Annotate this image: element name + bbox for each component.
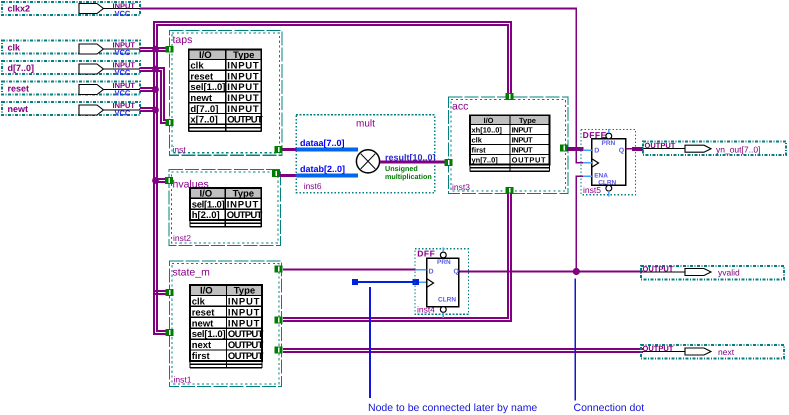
svg-text:yn_out[7..0]: yn_out[7..0] [716,144,760,154]
input pin reset [2,81,140,97]
svg-text:D: D [594,147,599,154]
svg-text:clk: clk [8,43,22,53]
taps I/O table [189,50,263,132]
svg-text:D: D [429,269,434,276]
svg-text:INPUT: INPUT [512,145,533,154]
annotation callout line node [369,287,371,398]
taps connector x out (right) [275,146,283,153]
bus acc yn to DFFE D [567,147,584,151]
svg-text:I/O: I/O [484,116,494,125]
output pin next [641,344,784,359]
svg-text:d[7..0]: d[7..0] [190,104,218,115]
svg-text:OUTPUT: OUTPUT [228,329,264,340]
junction dot d [152,66,159,73]
mult dataa bus stub [297,148,358,152]
svg-text:ENA: ENA [594,172,608,179]
svg-text:clk: clk [190,61,204,72]
svg-text:INPUT: INPUT [228,307,260,318]
svg-text:PRN: PRN [602,140,616,147]
conduit next from state_m to output pin [283,348,643,350]
svg-text:INPUT: INPUT [228,318,260,329]
conduit trunk from input pins to acc top [154,22,511,334]
wire clk conduit stub [140,47,170,49]
wire newt conduit stub [140,107,158,109]
svg-text:I/O: I/O [200,286,213,297]
state_m connector newt (left) [166,329,174,336]
svg-text:reset: reset [190,71,214,82]
svg-text:I/O: I/O [199,50,212,61]
svg-text:VCC: VCC [115,89,131,98]
wire state_m to DFF D [283,269,416,271]
svg-text:OUTPUT: OUTPUT [643,344,674,353]
svg-text:yvalid: yvalid [718,268,740,278]
svg-text:d[7..0]: d[7..0] [8,63,35,73]
svg-text:OUTPUT: OUTPUT [227,210,263,221]
annotation callout line connection dot [574,279,576,401]
input pin clk [2,41,140,58]
block taps [170,31,283,156]
connection dot at yvalid [573,268,580,275]
svg-text:Type: Type [519,116,536,125]
svg-text:h[2..0]: h[2..0] [192,210,220,221]
svg-text:OUTPUT: OUTPUT [228,351,264,362]
svg-text:INPUT: INPUT [512,125,533,134]
junction dot hvalues sel [152,177,159,184]
svg-text:xh[10..0]: xh[10..0] [472,125,503,134]
svg-text:reset: reset [192,307,216,318]
svg-text:state_m: state_m [173,267,211,279]
wire d[7..0] conduit to taps [140,68,170,120]
svg-text:DFF: DFF [417,249,435,259]
svg-text:VCC: VCC [115,109,131,118]
svg-text:clkx2: clkx2 [8,4,31,14]
svg-text:OUTPUT: OUTPUT [512,155,546,164]
svg-text:VCC: VCC [115,9,131,18]
svg-text:I/O: I/O [200,188,213,199]
junction dot clk [152,46,159,53]
bus DFFE Q to yn_out pin [626,148,634,150]
flip-flop DFF inst4 [415,248,468,318]
state_m connector to DFF (right) [275,266,283,273]
svg-text:INPUT: INPUT [227,82,259,93]
svg-text:OUTPUT: OUTPUT [645,141,676,150]
svg-text:Type: Type [233,50,254,61]
svg-text:multiplication: multiplication [385,172,432,181]
svg-text:Node to be connected later by: Node to be connected later by name [368,402,537,414]
svg-text:newt: newt [8,104,29,114]
input pin newt [2,101,140,117]
svg-text:reset: reset [8,84,30,94]
svg-text:INPUT: INPUT [228,297,260,308]
svg-text:PRN: PRN [437,259,451,266]
block mult [296,115,435,193]
svg-text:newt: newt [190,93,212,104]
acc connector yn out (right) [560,145,568,152]
node wire to be connected by name [352,279,427,285]
junction dot reset [152,86,159,93]
state_m connector first (right) [275,317,283,324]
state_m I/O table [190,285,264,368]
svg-text:newt: newt [192,318,214,329]
svg-text:dataa[7..0]: dataa[7..0] [300,138,345,148]
svg-text:inst3: inst3 [452,182,470,192]
input pin clkx2 [2,2,140,18]
svg-text:clk: clk [192,297,206,308]
svg-text:inst2: inst2 [173,233,191,243]
block acc [449,97,569,194]
svg-text:VCC: VCC [115,68,131,77]
svg-text:INPUT: INPUT [512,135,533,144]
svg-text:INPUT: INPUT [227,93,259,104]
acc connector first (bottom) [506,187,514,194]
taps connector d (left) [166,119,174,126]
svg-text:Connection dot: Connection dot [574,402,645,414]
svg-text:inst6: inst6 [304,181,322,191]
svg-text:clk: clk [472,135,483,144]
svg-text:next: next [718,347,735,357]
svg-text:Q: Q [454,269,460,276]
state_m connector clk (left) [166,289,174,296]
input pin d[7..0] [2,61,140,77]
acc connector xh (left) [445,159,453,166]
svg-text:OUTPUT: OUTPUT [227,115,263,126]
svg-text:sel[1..0]: sel[1..0] [192,199,225,210]
acc connector clk (top) [506,93,514,100]
state_m connector next (right) [275,347,283,354]
wire conduit branch to state_m clk [153,290,170,292]
acc I/O table [470,115,550,171]
svg-text:Q: Q [619,147,625,154]
block hvalues [169,170,281,246]
svg-text:CLRN: CLRN [438,297,456,304]
hvalues connector sel (left) [165,177,173,184]
junction dot newt [152,107,159,114]
svg-text:sel[1..0]: sel[1..0] [190,82,225,93]
svg-text:mult: mult [356,119,375,130]
hvalues I/O table [190,188,262,227]
bus mult result to acc [380,160,446,163]
flip-flop DFFE inst5 [581,129,636,196]
svg-text:OUTPUT: OUTPUT [643,265,674,274]
taps connector clk (left) [166,46,174,53]
svg-text:Type: Type [234,286,255,297]
hvalues connector h out (top right) [272,170,280,177]
svg-text:OUTPUT: OUTPUT [228,340,264,351]
wire conduit branch to hvalues [153,178,170,180]
svg-text:yn[7..0]: yn[7..0] [472,155,499,164]
block state_m [170,261,282,387]
svg-text:x[7..0]: x[7..0] [190,115,217,126]
svg-text:INPUT: INPUT [227,71,259,82]
svg-text:first: first [192,351,211,362]
bus taps x[7..0] to mult dataa [283,148,298,151]
bus hvalues h[2..0] to mult datab [280,174,298,177]
wire DFF Q to yvalid [459,271,643,273]
svg-text:Type: Type [233,188,254,199]
svg-text:VCC: VCC [115,48,131,57]
svg-text:INPUT: INPUT [227,104,259,115]
svg-text:sel[1..0]: sel[1..0] [192,329,226,340]
output pin yvalid [641,265,784,280]
svg-text:acc: acc [452,101,468,113]
wire yvalid net riser to DFFE ENA [576,176,583,271]
wire reset conduit stub [140,87,158,89]
svg-text:inst1: inst1 [174,375,192,385]
output pin yn_out[7..0] [643,141,786,155]
svg-text:datab[2..0]: datab[2..0] [300,164,345,174]
wire clkx2 to DFFE clock [140,9,583,163]
mult multiplier circle [356,150,379,173]
svg-text:inst5: inst5 [583,185,601,195]
svg-text:inst: inst [173,145,187,155]
svg-text:next: next [192,340,212,351]
mult datab bus stub [297,174,358,178]
svg-text:INPUT: INPUT [227,199,259,210]
svg-text:taps: taps [173,34,193,46]
svg-text:first: first [472,145,487,154]
conduit first from state_m to acc bottom [283,194,511,322]
svg-text:INPUT: INPUT [227,61,259,72]
